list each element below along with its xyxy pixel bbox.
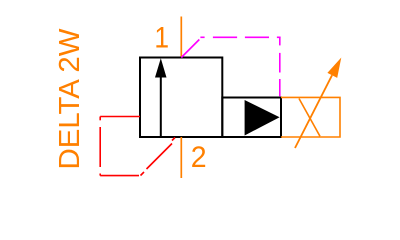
drain line bottom horizontal (red) [100,175,139,177]
orifice box (orange) [281,97,340,137]
valve body box [140,58,222,138]
adjustment arrow [295,58,341,149]
pilot line vertical dashes (magenta) [279,37,281,96]
label DELTA 2W [54,28,86,170]
pilot stage box [222,98,281,138]
drain line top horizontal (red dashed) [100,116,140,118]
svg-text:2: 2 [191,142,207,175]
port label 2 [191,142,207,175]
port label 1 [154,20,169,54]
check valve triangle [245,100,280,136]
port line 1 [180,17,182,58]
drain line vertical dashes (red) [99,117,101,176]
svg-text:1: 1 [154,20,169,54]
port line 2 [180,137,182,178]
svg-text:DELTA 2W: DELTA 2W [54,28,86,170]
pilot line horizontal dashes (magenta) [200,36,280,38]
orifice X diagonal [299,99,320,137]
flow arrow (inside valve body) [155,58,167,137]
drain line diagonal dashes (red) [141,138,176,176]
pilot line diagonal (magenta dashed) [181,40,199,58]
